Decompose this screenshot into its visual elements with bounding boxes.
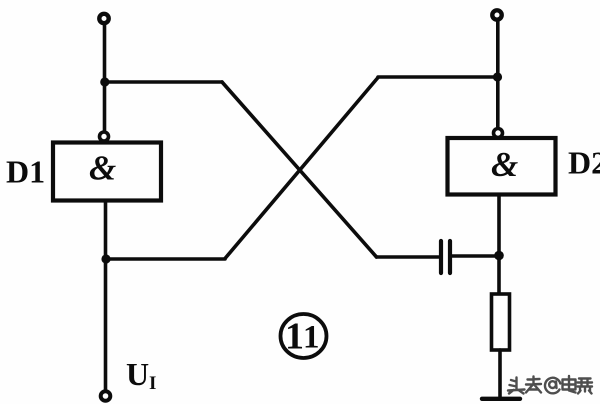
wire left vertical top — [103, 25, 107, 132]
wire bottom-left horizontal — [106, 257, 225, 261]
wire bottom-right horizontal (node D to capacitor) — [377, 255, 439, 259]
wire diagonal A (node A to node D) — [222, 82, 377, 257]
and-gate D1 box — [53, 143, 161, 201]
bubble input D1 — [100, 132, 109, 141]
svg-text:&: & — [89, 149, 116, 188]
svg-text:1: 1 — [285, 316, 304, 358]
wire capacitor to node E — [452, 254, 499, 258]
resistor R body — [492, 294, 510, 350]
wire left vertical bottom (node B to UI terminal) — [104, 259, 108, 390]
svg-text:I: I — [149, 373, 156, 394]
terminal top-left input — [99, 14, 108, 23]
wire diagonal B (node B to node C) — [225, 78, 378, 259]
svg-text:D1: D1 — [6, 154, 45, 190]
ground — [482, 397, 520, 401]
wire top-right horizontal — [378, 75, 497, 79]
junction node E — [494, 251, 504, 261]
figure number circle 11 — [281, 314, 327, 358]
wire top-left horizontal — [105, 80, 222, 84]
junction node A — [100, 77, 109, 86]
terminal U_I bottom — [101, 391, 111, 401]
junction node B — [101, 254, 110, 263]
and-gate D2 box — [448, 138, 556, 195]
terminal top-right input — [492, 10, 501, 19]
svg-text:D2: D2 — [568, 145, 600, 181]
watermark 头条@电巢 — [508, 376, 592, 394]
junction node C — [493, 72, 502, 81]
svg-text:U: U — [126, 356, 149, 392]
capacitor C left plate — [439, 241, 443, 273]
capacitor C right plate — [448, 241, 452, 273]
wire D2 output down — [497, 195, 501, 295]
wire D1 output — [104, 201, 108, 260]
bubble input D2 — [494, 129, 503, 138]
wire resistor to ground — [498, 350, 502, 397]
svg-text:1: 1 — [303, 320, 320, 356]
wire right vertical top — [496, 22, 500, 129]
svg-text:&: & — [491, 145, 518, 184]
